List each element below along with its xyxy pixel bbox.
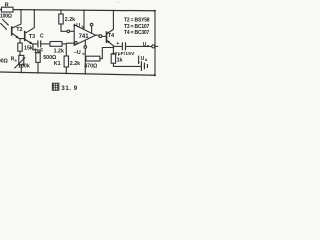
output terminal Ua <box>143 42 158 48</box>
noise specks <box>118 2 149 75</box>
svg-text:500Ω: 500Ω <box>43 55 57 61</box>
voltage arrow Ua <box>138 56 148 65</box>
parts list T2 T3 T4 <box>124 18 150 37</box>
svg-text:A: A <box>145 58 148 62</box>
svg-text:T2 = BSY58: T2 = BSY58 <box>124 18 150 24</box>
transistor T2 (phototransistor) <box>12 26 25 38</box>
svg-text:1.2k: 1.2k <box>54 48 64 54</box>
wire to op-amp + input <box>70 30 75 32</box>
svg-text:741: 741 <box>79 34 90 40</box>
resistor 15k <box>18 39 33 56</box>
resistor 2.2k (to + input) <box>59 10 75 31</box>
wire bottom 0V rail <box>0 72 155 75</box>
svg-text:1k: 1k <box>117 58 123 64</box>
svg-text:15k: 15k <box>24 46 33 52</box>
svg-text:470Ω: 470Ω <box>84 64 98 70</box>
ground symbol <box>141 61 147 71</box>
wire top +Ub rail <box>0 10 155 11</box>
wire - input node <box>66 43 74 56</box>
potentiometer Ra <box>11 55 30 72</box>
resistor 500Ω <box>33 44 57 72</box>
resistor 470Ω <box>84 48 113 70</box>
wire +Ub supply to op-amp <box>73 10 93 33</box>
caption 图 31-9 <box>52 83 77 92</box>
svg-text:2.2k: 2.2k <box>70 61 80 67</box>
wire -Ub supply from op-amp <box>74 40 87 73</box>
svg-text:47µF/15V: 47µF/15V <box>112 51 135 57</box>
svg-text:a: a <box>15 59 18 63</box>
capacitor C 1uF <box>33 33 50 54</box>
svg-text:T2: T2 <box>16 27 22 33</box>
op-amp U1 741 <box>74 25 95 46</box>
transistor T4 <box>107 10 115 47</box>
svg-text:100k: 100k <box>18 63 30 69</box>
svg-text:T3: T3 <box>29 34 35 40</box>
node dot T4 emitter <box>113 47 115 49</box>
wire right side <box>154 11 156 76</box>
svg-text:+U: +U <box>73 23 80 29</box>
svg-text:100Ω: 100Ω <box>0 13 12 19</box>
svg-text:T4: T4 <box>108 33 114 39</box>
resistor 1k <box>111 48 141 67</box>
resistor R <box>0 3 13 20</box>
capacitor 47uF/15V <box>112 41 152 57</box>
node junction dots on top rail <box>20 9 156 12</box>
transistor T3 <box>25 10 35 45</box>
op-amp output wire <box>96 35 107 38</box>
svg-text:T4 = BC307: T4 = BC307 <box>124 30 150 36</box>
svg-text:C: C <box>40 33 44 39</box>
node circle op-amp + input <box>67 30 70 33</box>
resistor K1 2.2k <box>54 56 80 73</box>
resistor 1.2k <box>50 42 66 55</box>
svg-text:31. 9: 31. 9 <box>61 86 77 92</box>
svg-text:T3 = BC107: T3 = BC107 <box>124 24 150 30</box>
svg-text:100Ω: 100Ω <box>0 59 8 65</box>
light arrows into T2 <box>0 19 8 30</box>
svg-text:+: + <box>116 41 119 47</box>
wire T2 collector <box>12 10 21 28</box>
node dots bottom rail <box>21 72 156 77</box>
svg-text:K1: K1 <box>54 61 61 67</box>
svg-text:−U: −U <box>74 50 81 56</box>
svg-text:R: R <box>5 3 9 9</box>
